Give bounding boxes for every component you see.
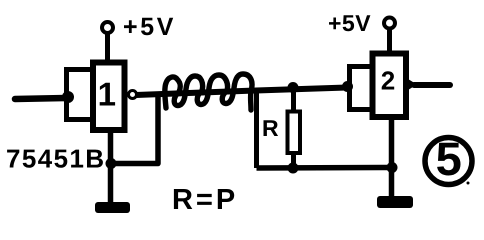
wire: coil return vertical down to bottom rail bbox=[254, 89, 259, 168]
label: pin digit 1 bbox=[100, 83, 115, 106]
speck bbox=[467, 182, 470, 185]
figure number 5 digit bbox=[437, 143, 460, 176]
driver gate U1 (75451B ch.1) box bbox=[93, 63, 125, 131]
wire: left input lead bbox=[15, 98, 66, 99]
label: 75451B part number bbox=[7, 150, 103, 168]
wire: gate 1 bottom lead to ground bbox=[108, 130, 114, 202]
figure number 5 circle bbox=[425, 138, 472, 185]
label: R (resistor) bbox=[264, 120, 279, 136]
wire: gate1 output to gate2 input bbox=[136, 88, 347, 96]
node: junction bottom rail to ground lead bbox=[387, 162, 398, 173]
label: +5V right bbox=[329, 15, 370, 31]
node: resistor top junction bbox=[288, 82, 299, 93]
node: junction on gate 1 ground lead bbox=[106, 158, 117, 169]
driver gate U2 (75451B ch.2) box bbox=[373, 54, 407, 118]
label: R=P note bbox=[174, 189, 234, 209]
node: resistor bottom junction bbox=[288, 163, 299, 174]
terminal: +5V right circle bbox=[384, 18, 395, 29]
wire: +5V lead of gate 1 bbox=[105, 33, 110, 62]
wire: resistor bottom lead bbox=[291, 153, 296, 168]
terminal: +5V left circle bbox=[102, 22, 113, 33]
resistor R body bbox=[288, 112, 301, 154]
label: +5V left bbox=[124, 18, 173, 35]
pin bubble: gate 1 output bbox=[129, 91, 137, 99]
gate 2 input bracket bbox=[350, 67, 374, 110]
node: gate 2 input junction bbox=[342, 81, 353, 92]
ground right bbox=[377, 196, 413, 208]
gate 1 input bracket bbox=[67, 70, 93, 120]
terminal: gate 2 output arrow bbox=[408, 79, 417, 90]
wire: bottom rail bbox=[257, 165, 393, 171]
wire: right output lead bbox=[414, 82, 450, 88]
wire: +5V lead of gate 2 bbox=[387, 29, 392, 53]
inductor coil (relay winding) bbox=[165, 74, 252, 110]
label: pin digit 2 bbox=[382, 71, 395, 89]
wire: resistor top lead bbox=[291, 88, 296, 113]
node: input junction at bracket 1 bbox=[62, 91, 74, 103]
wire: L-link from junction up to output wire bbox=[111, 95, 158, 164]
wire: gate 2 bottom lead to ground bbox=[389, 117, 395, 196]
ground left bbox=[95, 202, 130, 213]
